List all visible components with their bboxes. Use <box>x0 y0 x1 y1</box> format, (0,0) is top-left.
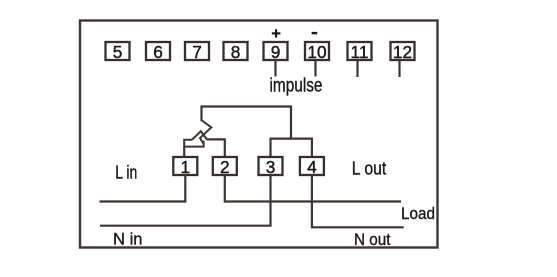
meter enclosure border <box>80 21 438 248</box>
svg-text:10: 10 <box>307 42 326 62</box>
terminal 8 <box>224 42 248 62</box>
svg-text:N out: N out <box>354 230 391 249</box>
wire N in to terminal 3 <box>100 175 271 226</box>
svg-text:8: 8 <box>231 42 241 62</box>
svg-text:9: 9 <box>271 42 281 62</box>
terminal 4 <box>300 157 324 177</box>
svg-text:7: 7 <box>192 42 202 62</box>
wire stub terminal 9 <box>274 60 276 77</box>
wire stub terminal 10 <box>314 60 316 77</box>
wire stub terminal 12 <box>398 60 400 77</box>
wire L in to terminal 1 <box>100 175 186 202</box>
terminal 5 <box>106 42 130 62</box>
terminal 9 <box>264 42 288 62</box>
svg-text:6: 6 <box>153 42 163 62</box>
svg-text:1: 1 <box>180 157 190 177</box>
svg-text:3: 3 <box>266 157 276 177</box>
svg-text:2: 2 <box>220 157 230 177</box>
wire terminal 4 to N out <box>312 175 404 227</box>
svg-text:L out: L out <box>352 158 387 179</box>
terminal 10 <box>305 42 329 62</box>
wire stub terminal 11 <box>356 60 358 77</box>
terminal 11 <box>348 42 372 62</box>
terminal 12 <box>391 42 415 62</box>
svg-text:impulse: impulse <box>270 76 323 97</box>
svg-text:Load: Load <box>401 204 435 223</box>
plus polarity label <box>272 29 281 37</box>
wire switch to terminal 2 <box>207 139 225 157</box>
svg-text:11: 11 <box>351 42 369 62</box>
switch blade lever <box>184 131 207 146</box>
wire terminal 2 to load <box>225 175 401 202</box>
svg-text:N in: N in <box>113 229 143 248</box>
svg-text:12: 12 <box>393 42 412 62</box>
terminal 3 <box>259 157 283 177</box>
wire switch to terminal 1 <box>183 147 185 157</box>
svg-text:L in: L in <box>115 163 137 183</box>
switch fixed contact chevron <box>200 120 211 143</box>
svg-text:5: 5 <box>113 42 123 62</box>
minus polarity label <box>312 32 318 34</box>
wire top link switch to L-out terminals <box>202 107 292 139</box>
terminal 1 <box>173 157 197 177</box>
terminal 7 <box>185 42 209 62</box>
terminal 6 <box>146 42 170 62</box>
terminal 2 <box>213 157 237 177</box>
wire bus over terminals 3 and 4 <box>271 139 312 157</box>
svg-text:4: 4 <box>307 157 317 177</box>
